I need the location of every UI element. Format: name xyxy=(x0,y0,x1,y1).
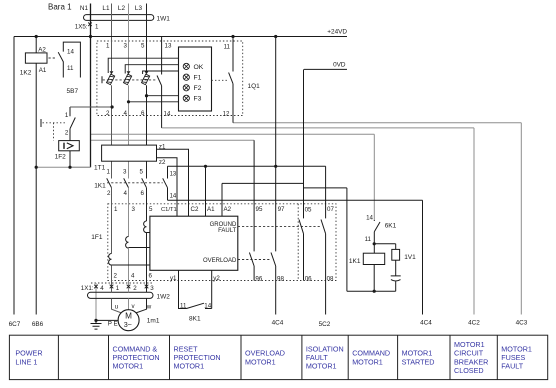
svg-text:13: 13 xyxy=(170,172,177,178)
svg-text:MOTOR1: MOTOR1 xyxy=(113,362,144,371)
svg-text:6: 6 xyxy=(141,110,145,117)
svg-text:95: 95 xyxy=(256,206,263,213)
svg-text:2: 2 xyxy=(133,285,137,292)
svg-text:4: 4 xyxy=(124,110,128,117)
svg-text:2: 2 xyxy=(65,130,69,137)
svg-text:11: 11 xyxy=(67,65,74,72)
svg-text:05: 05 xyxy=(305,206,312,213)
svg-text:N1: N1 xyxy=(80,5,89,12)
svg-text:STARTED: STARTED xyxy=(402,357,435,366)
svg-text:5: 5 xyxy=(141,42,145,49)
svg-text:4: 4 xyxy=(131,272,135,279)
svg-text:14: 14 xyxy=(164,110,171,117)
svg-text:MOTOR1: MOTOR1 xyxy=(245,357,276,366)
svg-text:1F1: 1F1 xyxy=(91,234,103,241)
svg-text:3: 3 xyxy=(123,168,127,175)
svg-text:14: 14 xyxy=(67,48,74,55)
svg-text:F1: F1 xyxy=(194,75,202,82)
svg-text:4: 4 xyxy=(100,285,104,292)
svg-text:C1/T1: C1/T1 xyxy=(161,207,177,213)
svg-text:1K2: 1K2 xyxy=(20,70,32,77)
svg-text:1T1: 1T1 xyxy=(94,165,106,172)
svg-text:FAULT: FAULT xyxy=(218,228,237,234)
svg-text:3: 3 xyxy=(132,206,136,213)
svg-text:06: 06 xyxy=(305,276,312,283)
svg-text:F3: F3 xyxy=(194,96,202,103)
svg-text:MOTOR1: MOTOR1 xyxy=(306,362,337,371)
svg-text:OK: OK xyxy=(194,64,204,71)
svg-text:1W1: 1W1 xyxy=(157,15,171,22)
svg-text:13: 13 xyxy=(165,42,172,49)
svg-text:3~: 3~ xyxy=(124,320,132,329)
svg-text:L1: L1 xyxy=(102,5,110,12)
svg-text:1: 1 xyxy=(106,42,110,49)
svg-text:3: 3 xyxy=(124,42,128,49)
svg-text:6: 6 xyxy=(149,272,153,279)
svg-text:2: 2 xyxy=(107,190,111,197)
svg-text:6K1: 6K1 xyxy=(385,222,397,229)
svg-text:1K1: 1K1 xyxy=(94,183,106,190)
svg-text:A1: A1 xyxy=(207,206,215,213)
svg-text:Bara 1: Bara 1 xyxy=(48,2,72,11)
svg-text:4C4: 4C4 xyxy=(272,320,284,327)
svg-text:5: 5 xyxy=(140,168,144,175)
svg-text:1: 1 xyxy=(95,24,99,31)
svg-text:14: 14 xyxy=(170,194,177,200)
svg-text:4C3: 4C3 xyxy=(516,320,528,327)
svg-text:A1: A1 xyxy=(39,67,47,74)
svg-text:2: 2 xyxy=(114,272,118,279)
svg-text:08: 08 xyxy=(327,276,334,283)
svg-text:11: 11 xyxy=(365,236,372,243)
svg-text:1Q1: 1Q1 xyxy=(248,83,261,90)
svg-text:96: 96 xyxy=(255,276,262,283)
svg-text:1: 1 xyxy=(65,112,69,119)
svg-text:A2: A2 xyxy=(38,47,46,54)
svg-text:P E: P E xyxy=(108,321,118,328)
svg-text:5C2: 5C2 xyxy=(319,321,331,328)
svg-text:F2: F2 xyxy=(194,85,202,92)
svg-text:1: 1 xyxy=(107,168,111,175)
svg-text:4: 4 xyxy=(124,190,128,197)
svg-text:4C4: 4C4 xyxy=(420,320,432,327)
svg-text:98: 98 xyxy=(277,276,284,283)
svg-text:L2: L2 xyxy=(118,5,126,12)
svg-text:CLOSED: CLOSED xyxy=(454,366,484,375)
svg-text:1X5:: 1X5: xyxy=(75,24,88,31)
svg-text:1X1:: 1X1: xyxy=(81,285,94,292)
svg-text:1K1: 1K1 xyxy=(349,258,361,265)
svg-text:5: 5 xyxy=(149,206,153,213)
svg-text:MOTOR1: MOTOR1 xyxy=(174,362,205,371)
svg-text:L3: L3 xyxy=(135,5,143,12)
svg-text:8K1: 8K1 xyxy=(189,316,201,323)
svg-text:14: 14 xyxy=(204,303,211,310)
svg-text:1W2: 1W2 xyxy=(157,294,171,301)
svg-text:6B6: 6B6 xyxy=(32,321,44,328)
svg-text:11: 11 xyxy=(224,43,231,50)
svg-text:3: 3 xyxy=(150,285,154,292)
svg-text:5B7: 5B7 xyxy=(67,88,79,95)
svg-text:A2: A2 xyxy=(224,206,232,213)
svg-text:6C7: 6C7 xyxy=(9,321,21,328)
svg-text:4C2: 4C2 xyxy=(468,320,480,327)
svg-text:1: 1 xyxy=(116,285,120,292)
svg-text:OVERLOAD: OVERLOAD xyxy=(203,258,237,264)
svg-text:97: 97 xyxy=(278,206,285,213)
svg-text:1V1: 1V1 xyxy=(404,254,416,261)
svg-text:y1: y1 xyxy=(170,275,177,282)
svg-text:0VD: 0VD xyxy=(333,61,346,68)
svg-text:z1: z1 xyxy=(159,143,166,150)
svg-text:1F2: 1F2 xyxy=(55,153,67,160)
svg-text:2: 2 xyxy=(106,110,110,117)
svg-text:FAULT: FAULT xyxy=(501,362,523,371)
svg-text:+24VD: +24VD xyxy=(327,29,347,36)
svg-text:12: 12 xyxy=(223,111,230,118)
svg-text:07: 07 xyxy=(327,206,334,213)
svg-text:1: 1 xyxy=(114,206,118,213)
svg-text:y2: y2 xyxy=(213,275,220,282)
svg-text:14: 14 xyxy=(366,215,373,222)
svg-text:LINE 1: LINE 1 xyxy=(15,357,37,366)
svg-text:1m1: 1m1 xyxy=(147,318,160,325)
svg-text:MOTOR1: MOTOR1 xyxy=(352,357,383,366)
svg-text:w: w xyxy=(146,303,152,310)
svg-text:6: 6 xyxy=(141,190,145,197)
svg-text:u: u xyxy=(115,303,119,310)
svg-text:C2: C2 xyxy=(191,206,199,213)
svg-text:z2: z2 xyxy=(159,159,166,166)
svg-text:11: 11 xyxy=(180,303,187,310)
